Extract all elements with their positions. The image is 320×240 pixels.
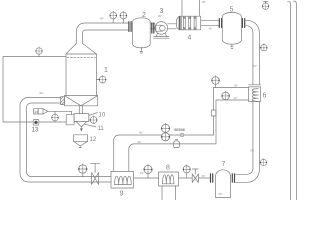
svg-text:4: 4 xyxy=(188,35,192,42)
svg-text:45°: 45° xyxy=(140,171,144,175)
svg-text:8: 8 xyxy=(166,165,170,172)
svg-text:45°: 45° xyxy=(209,26,213,30)
svg-text:45°: 45° xyxy=(253,64,257,68)
svg-text:11: 11 xyxy=(98,126,105,132)
svg-text:3: 3 xyxy=(160,8,164,15)
svg-text:1: 1 xyxy=(104,67,108,74)
svg-text:2%: 2% xyxy=(250,149,254,153)
svg-text:13: 13 xyxy=(32,128,39,134)
svg-text:90°: 90° xyxy=(40,91,44,95)
svg-text:7: 7 xyxy=(222,161,226,168)
svg-text:26°: 26° xyxy=(202,174,206,178)
svg-text:90°: 90° xyxy=(158,14,162,18)
svg-text:90°: 90° xyxy=(219,192,223,196)
svg-text:14: 14 xyxy=(34,109,39,114)
svg-text:90°: 90° xyxy=(202,0,206,4)
svg-text:2: 2 xyxy=(142,12,146,19)
svg-text:26°: 26° xyxy=(234,84,238,88)
svg-text:40°: 40° xyxy=(139,131,143,135)
svg-text:10: 10 xyxy=(99,113,106,119)
svg-text:5: 5 xyxy=(230,7,234,14)
svg-text:90°: 90° xyxy=(100,17,104,21)
svg-text:9: 9 xyxy=(120,191,124,198)
svg-text:6: 6 xyxy=(263,93,267,100)
svg-text:12°: 12° xyxy=(234,96,238,100)
svg-text:36°: 36° xyxy=(138,140,142,144)
svg-text:12: 12 xyxy=(90,137,97,143)
